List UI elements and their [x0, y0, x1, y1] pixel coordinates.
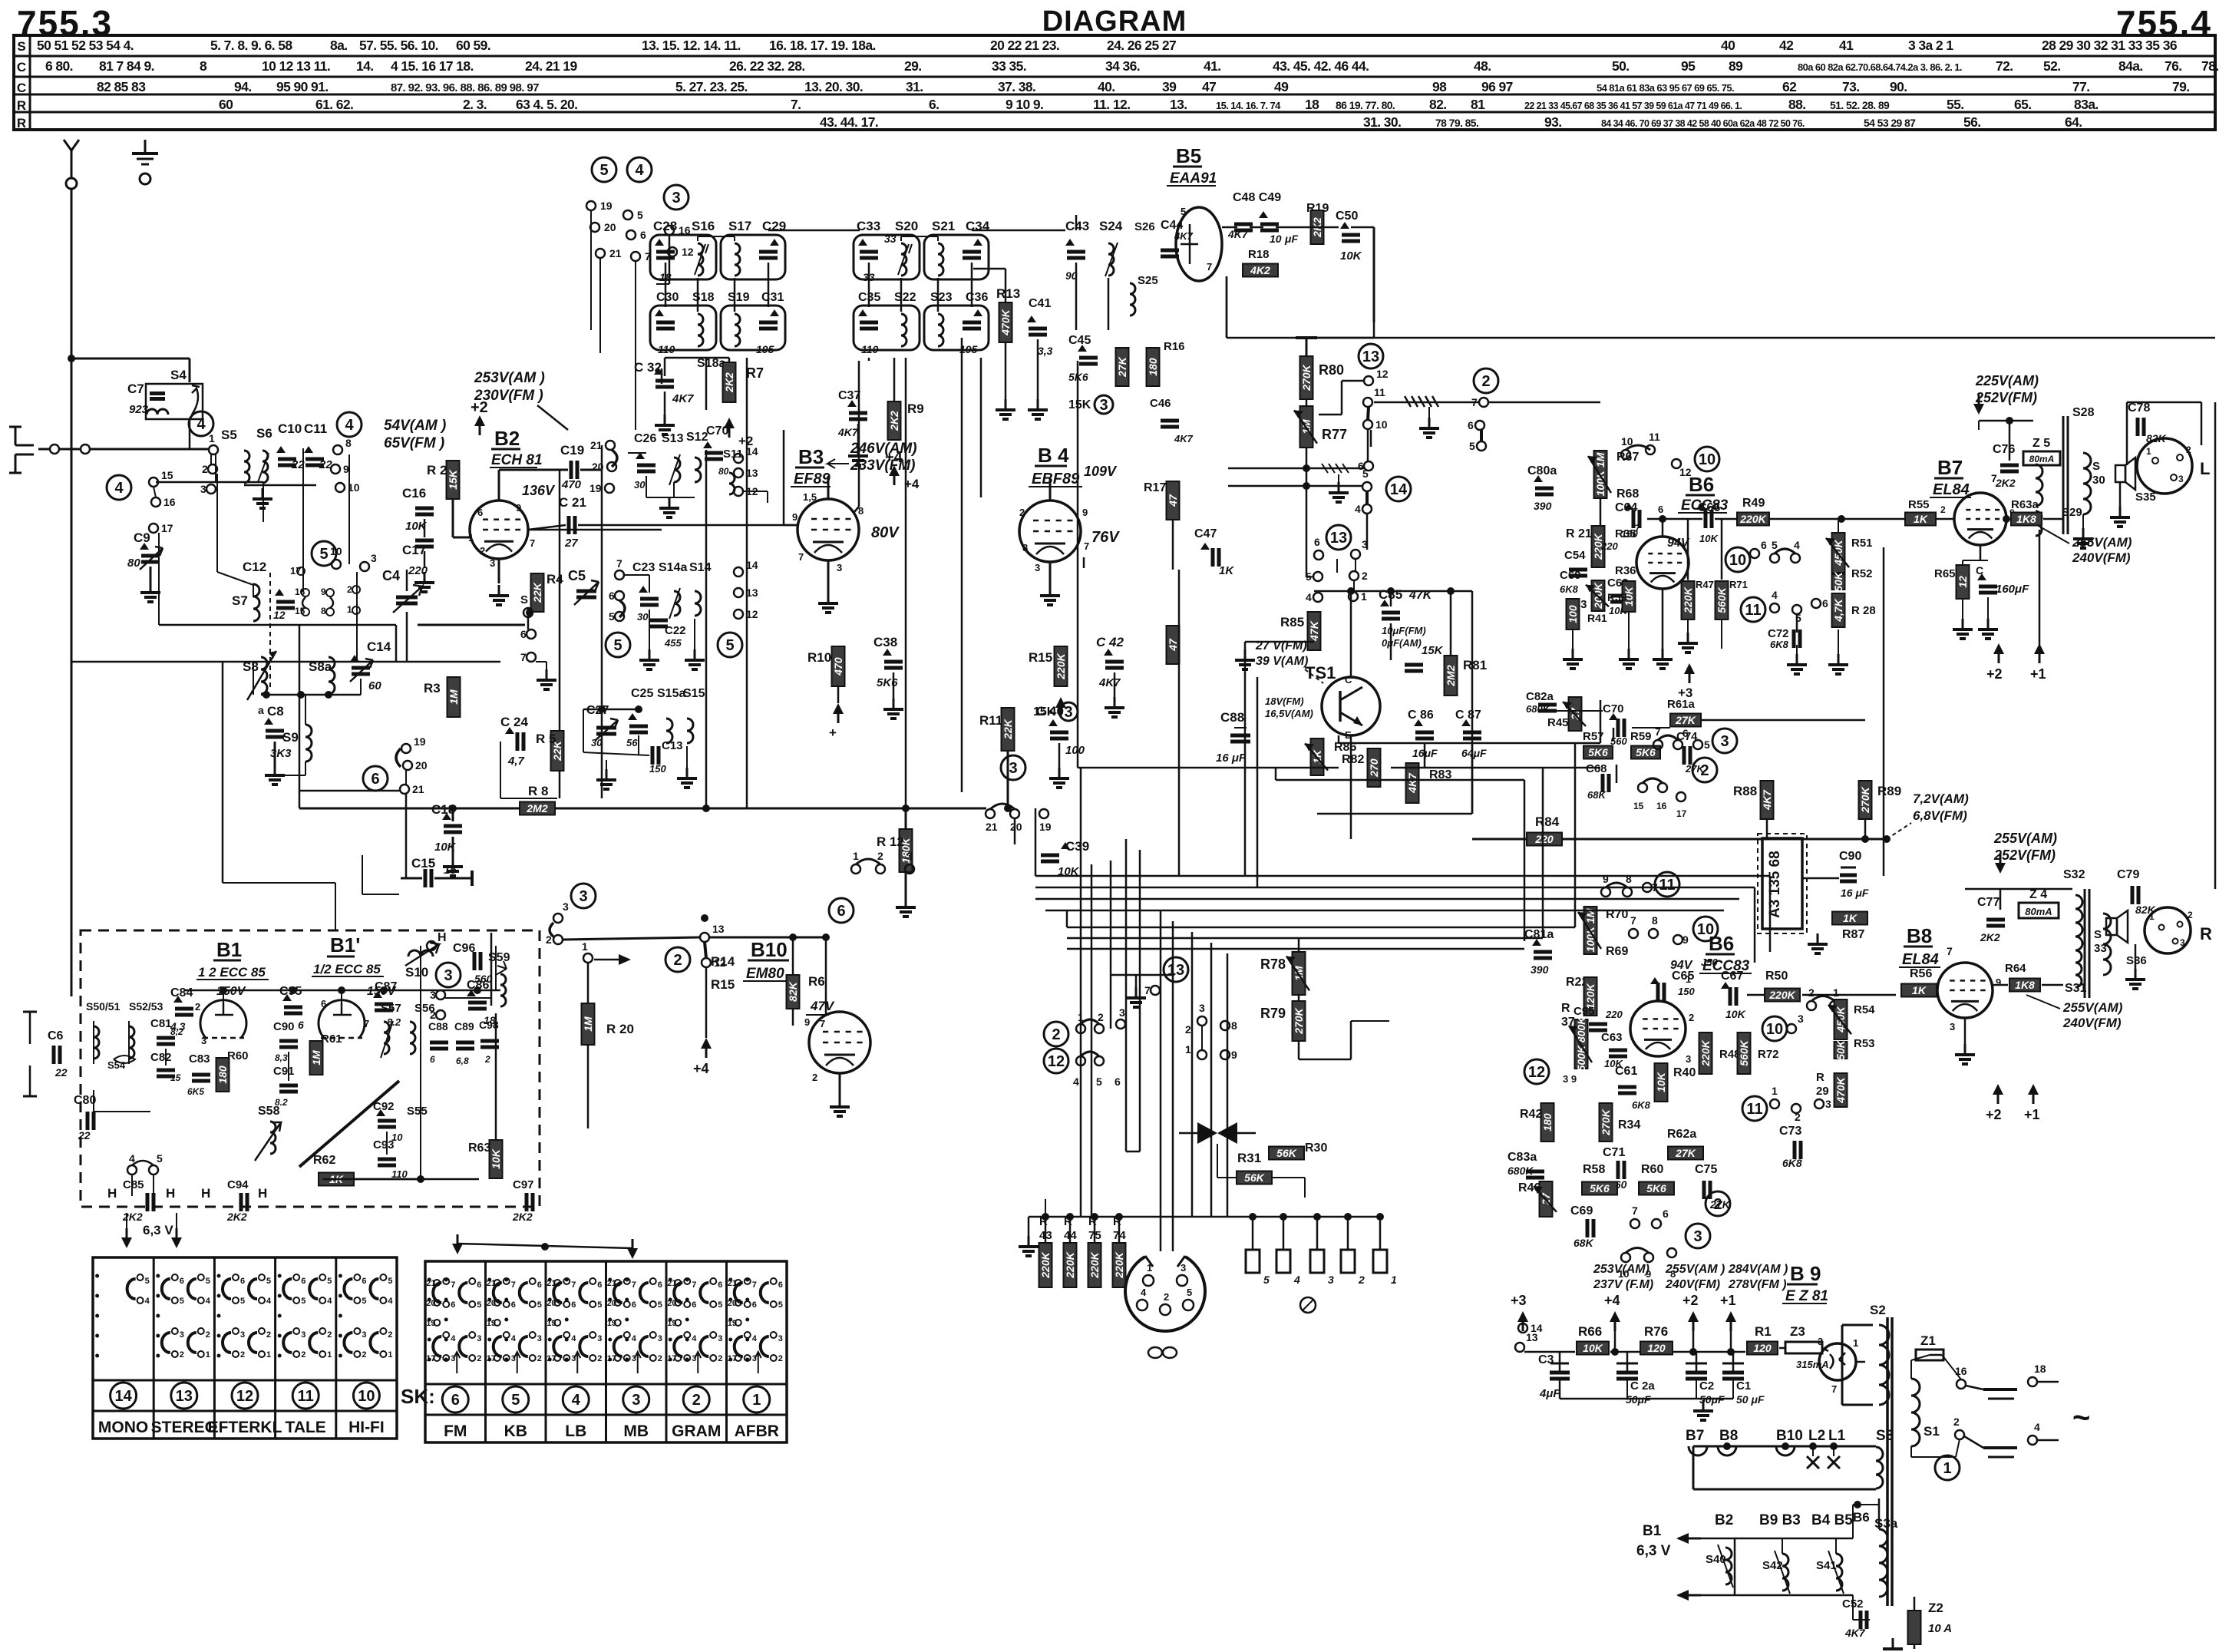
svg-text:15: 15 — [1633, 801, 1644, 811]
svg-text:R71: R71 — [1729, 579, 1748, 590]
svg-text:C94: C94 — [227, 1178, 249, 1191]
svg-text:3: 3 — [658, 1334, 662, 1343]
svg-text:68K: 68K — [1574, 1237, 1594, 1249]
svg-text:Z2: Z2 — [1928, 1601, 1943, 1615]
svg-text:3: 3 — [180, 1330, 184, 1340]
svg-text:S21: S21 — [932, 219, 955, 233]
svg-text:R63: R63 — [468, 1142, 490, 1155]
svg-text:MB: MB — [623, 1422, 649, 1440]
svg-text:6: 6 — [837, 903, 845, 920]
svg-text:270: 270 — [1368, 758, 1380, 778]
svg-text:B6: B6 — [1709, 932, 1734, 955]
svg-text:S14a: S14a — [659, 561, 687, 574]
svg-text:6K5: 6K5 — [187, 1086, 204, 1097]
svg-text:5: 5 — [477, 1300, 481, 1310]
svg-text:R1: R1 — [1755, 1324, 1772, 1339]
svg-text:B8: B8 — [1907, 924, 1932, 947]
svg-text:5: 5 — [1096, 1075, 1102, 1088]
svg-text:C46: C46 — [1150, 397, 1171, 410]
svg-text:4,7: 4,7 — [507, 755, 525, 768]
svg-text:6: 6 — [240, 1277, 245, 1286]
svg-text:C2: C2 — [1699, 1379, 1714, 1393]
svg-text:C23: C23 — [632, 561, 655, 574]
svg-text:R80: R80 — [1319, 362, 1344, 378]
svg-text:5: 5 — [301, 1297, 305, 1306]
svg-text:Z3: Z3 — [1790, 1324, 1805, 1339]
svg-text:15: 15 — [170, 1072, 181, 1083]
svg-text:3: 3 — [240, 1330, 245, 1340]
svg-text:61. 62.: 61. 62. — [315, 97, 353, 112]
svg-text:77.: 77. — [2072, 79, 2090, 94]
svg-text:2. 3.: 2. 3. — [463, 97, 487, 112]
svg-text:19: 19 — [600, 200, 613, 212]
svg-text:60: 60 — [219, 97, 233, 112]
svg-text:7: 7 — [798, 551, 804, 563]
svg-text:24. 26 25 27: 24. 26 25 27 — [1107, 38, 1176, 53]
svg-text:3: 3 — [301, 1330, 305, 1340]
svg-text:S58: S58 — [258, 1105, 280, 1118]
svg-text:78.: 78. — [2201, 58, 2219, 74]
svg-text:10: 10 — [1766, 1021, 1783, 1038]
svg-text:4: 4 — [692, 1334, 697, 1343]
svg-text:C15: C15 — [411, 856, 435, 871]
svg-text:6: 6 — [1761, 539, 1767, 551]
svg-text:S50/51: S50/51 — [86, 1000, 121, 1013]
svg-text:μF: μF — [1284, 233, 1298, 245]
svg-text:33 35.: 33 35. — [992, 58, 1026, 74]
svg-text:5: 5 — [145, 1277, 150, 1286]
svg-text:270K: 270K — [1859, 786, 1871, 813]
svg-text:C84: C84 — [170, 986, 193, 999]
svg-text:57. 55. 56. 10.: 57. 55. 56. 10. — [359, 38, 438, 53]
svg-text:2: 2 — [812, 1072, 817, 1083]
svg-text:7: 7 — [1947, 945, 1953, 957]
svg-text:13: 13 — [1330, 530, 1347, 547]
svg-text:3: 3 — [1181, 1262, 1186, 1274]
svg-text:4: 4 — [2034, 1421, 2040, 1433]
svg-text:1/2 ECC 85: 1/2 ECC 85 — [313, 962, 381, 976]
svg-text:4: 4 — [571, 1334, 576, 1343]
svg-text:255V(AM): 255V(AM) — [2072, 535, 2132, 550]
svg-text:C37: C37 — [838, 389, 860, 402]
svg-text:8: 8 — [1231, 1019, 1237, 1032]
svg-text:1: 1 — [1391, 1274, 1397, 1286]
svg-text:S10: S10 — [405, 965, 428, 980]
svg-text:21: 21 — [609, 247, 622, 259]
svg-text:C39: C39 — [1065, 839, 1089, 854]
svg-text:55.: 55. — [1947, 97, 1964, 112]
svg-text:2: 2 — [1185, 1023, 1191, 1036]
svg-text:10: 10 — [330, 545, 342, 557]
svg-text:6: 6 — [1682, 727, 1689, 739]
svg-text:4K2: 4K2 — [1250, 264, 1270, 276]
svg-text:390: 390 — [1531, 963, 1549, 976]
svg-text:50.: 50. — [1612, 58, 1630, 74]
svg-text:240V(FM): 240V(FM) — [2072, 550, 2131, 565]
svg-text:1: 1 — [853, 850, 859, 862]
svg-text:7: 7 — [1635, 523, 1640, 534]
svg-text:R42: R42 — [1520, 1108, 1542, 1121]
svg-text:6: 6 — [511, 1300, 516, 1310]
svg-text:6: 6 — [597, 1280, 602, 1290]
svg-text:220K: 220K — [1699, 1039, 1712, 1066]
svg-text:9: 9 — [516, 502, 521, 514]
svg-text:43. 44. 17.: 43. 44. 17. — [820, 114, 878, 130]
svg-text:47: 47 — [1167, 494, 1179, 507]
svg-text:240V(FM): 240V(FM) — [1665, 1278, 1720, 1291]
svg-text:C78: C78 — [2128, 401, 2150, 415]
svg-text:195: 195 — [756, 343, 774, 355]
svg-text:9: 9 — [1603, 873, 1609, 885]
svg-text:2: 2 — [1808, 986, 1815, 999]
svg-text:4: 4 — [1073, 1075, 1079, 1088]
svg-text:17: 17 — [1676, 808, 1687, 819]
svg-text:3: 3 — [1119, 1006, 1125, 1019]
svg-text:18V(FM): 18V(FM) — [1265, 695, 1304, 707]
svg-text:S: S — [2094, 928, 2102, 941]
svg-text:S52/53: S52/53 — [129, 1000, 163, 1013]
svg-text:5: 5 — [637, 209, 643, 221]
svg-text:220K: 220K — [1039, 1251, 1052, 1278]
svg-text:6: 6 — [609, 590, 615, 602]
svg-text:7: 7 — [571, 1280, 576, 1290]
svg-text:S22: S22 — [894, 291, 916, 304]
svg-text:S: S — [520, 593, 528, 606]
svg-text:6: 6 — [362, 1277, 366, 1286]
svg-text:470K: 470K — [999, 309, 1012, 335]
svg-text:12: 12 — [714, 957, 726, 969]
svg-text:7: 7 — [1144, 984, 1151, 996]
svg-text:6 80.: 6 80. — [45, 58, 73, 74]
svg-text:1M: 1M — [582, 1016, 594, 1032]
svg-text:1: 1 — [388, 1350, 392, 1360]
svg-text:+2: +2 — [1986, 1107, 2002, 1122]
svg-text:4μF: 4μF — [1539, 1387, 1560, 1400]
svg-text:C 86: C 86 — [1408, 709, 1434, 722]
svg-text:54 53 29 87: 54 53 29 87 — [1864, 117, 1916, 129]
svg-text:3: 3 — [632, 1392, 640, 1409]
svg-text:C67: C67 — [1721, 970, 1743, 983]
svg-text:H: H — [438, 931, 447, 944]
svg-text:TS1: TS1 — [1305, 663, 1336, 682]
svg-text:H: H — [201, 1186, 210, 1201]
svg-text:30: 30 — [591, 737, 603, 748]
svg-text:40: 40 — [1721, 38, 1735, 53]
svg-text:13: 13 — [712, 923, 725, 935]
svg-text:5. 27. 23. 25.: 5. 27. 23. 25. — [675, 79, 748, 94]
svg-text:FM: FM — [444, 1422, 467, 1440]
svg-text:13: 13 — [1362, 349, 1379, 365]
svg-text:C10: C10 — [278, 421, 302, 436]
svg-text:31.: 31. — [906, 79, 923, 94]
svg-text:11: 11 — [1374, 386, 1385, 398]
svg-text:47: 47 — [1202, 79, 1216, 94]
svg-text:4: 4 — [196, 416, 206, 433]
svg-text:6: 6 — [658, 1280, 662, 1290]
svg-text:7: 7 — [451, 1280, 455, 1290]
svg-text:S6: S6 — [256, 426, 272, 441]
svg-text:B8: B8 — [1719, 1428, 1738, 1444]
svg-text:270K: 270K — [1293, 1007, 1305, 1034]
svg-text:120: 120 — [1647, 1342, 1666, 1354]
svg-text:7: 7 — [520, 651, 527, 663]
svg-text:6: 6 — [1314, 536, 1320, 548]
svg-text:C60: C60 — [1560, 569, 1581, 582]
svg-text:R62: R62 — [313, 1154, 335, 1167]
svg-text:20: 20 — [604, 221, 616, 233]
svg-text:S59: S59 — [488, 951, 510, 964]
svg-text:8a.: 8a. — [330, 38, 348, 53]
svg-text:R 5: R 5 — [536, 732, 556, 746]
svg-text:1: 1 — [1147, 1262, 1152, 1274]
svg-text:12: 12 — [273, 609, 286, 621]
svg-text:C 2a: C 2a — [1630, 1379, 1655, 1393]
svg-text:R61: R61 — [321, 1032, 342, 1046]
svg-text:13: 13 — [176, 1388, 193, 1405]
svg-text:R77: R77 — [1322, 427, 1347, 442]
svg-text:6: 6 — [632, 1300, 636, 1310]
svg-text:1: 1 — [1361, 590, 1367, 603]
svg-text:30: 30 — [634, 479, 646, 491]
svg-text:C93: C93 — [373, 1138, 395, 1151]
svg-text:5: 5 — [1181, 206, 1186, 217]
svg-text:150: 150 — [1678, 986, 1695, 997]
svg-text:Z 5: Z 5 — [2033, 437, 2050, 450]
svg-text:93.: 93. — [1544, 114, 1562, 130]
svg-text:60 59.: 60 59. — [456, 38, 490, 53]
svg-text:54V(AM ): 54V(AM ) — [384, 418, 446, 434]
svg-text:R60: R60 — [1641, 1163, 1663, 1176]
svg-text:5: 5 — [157, 1152, 163, 1165]
svg-text:252V(FM): 252V(FM) — [1975, 390, 2037, 405]
svg-text:S19: S19 — [728, 291, 750, 304]
svg-text:C13: C13 — [662, 739, 683, 752]
svg-text:41: 41 — [1839, 38, 1854, 53]
svg-text:C48 C49: C48 C49 — [1233, 191, 1281, 204]
svg-text:11: 11 — [1659, 877, 1675, 894]
svg-text:R58: R58 — [1583, 1163, 1605, 1176]
svg-text:76.: 76. — [2165, 58, 2182, 74]
svg-text:3: 3 — [579, 888, 587, 905]
svg-text:56.: 56. — [1963, 114, 1981, 130]
svg-text:7: 7 — [1084, 540, 1089, 552]
svg-text:C83a: C83a — [1507, 1151, 1537, 1164]
svg-text:5: 5 — [511, 1392, 520, 1409]
svg-text:16: 16 — [679, 224, 691, 236]
svg-text:4K7: 4K7 — [1098, 676, 1121, 689]
svg-text:48.: 48. — [1474, 58, 1491, 74]
svg-text:R47: R47 — [1696, 579, 1714, 590]
svg-text:C89: C89 — [454, 1020, 474, 1032]
svg-text:C63: C63 — [1601, 1031, 1623, 1044]
svg-text:C92: C92 — [373, 1100, 395, 1113]
svg-text:4: 4 — [451, 1334, 456, 1343]
svg-text:C30: C30 — [656, 291, 679, 304]
svg-text:C79: C79 — [2117, 868, 2139, 881]
svg-text:10: 10 — [1270, 233, 1282, 245]
svg-text:C6: C6 — [48, 1029, 64, 1042]
svg-text:96 97: 96 97 — [1481, 79, 1513, 94]
svg-text:7: 7 — [632, 1280, 636, 1290]
svg-text:87. 92. 93. 96. 88. 86. 89 98: 87. 92. 93. 96. 88. 86. 89 98. 97 — [391, 81, 539, 94]
svg-text:253V(AM ): 253V(AM ) — [474, 370, 545, 386]
svg-text:+3: +3 — [1511, 1293, 1527, 1308]
svg-text:S56: S56 — [414, 1002, 435, 1015]
svg-text:R16: R16 — [1164, 340, 1185, 353]
svg-text:84 34 46. 70 69 37 38 42 58 40: 84 34 46. 70 69 37 38 42 58 40 60a 62a 4… — [1601, 118, 1805, 129]
svg-text:16. 18. 17. 19. 18a.: 16. 18. 17. 19. 18a. — [769, 38, 876, 53]
svg-text:R78: R78 — [1260, 957, 1286, 972]
svg-text:4K7: 4K7 — [837, 426, 859, 438]
svg-text:S23: S23 — [930, 291, 953, 304]
svg-text:2: 2 — [692, 1392, 701, 1409]
svg-text:12: 12 — [1048, 1053, 1065, 1070]
svg-text:2K2: 2K2 — [512, 1211, 533, 1223]
svg-text:2: 2 — [480, 545, 485, 557]
svg-text:4: 4 — [1306, 591, 1312, 603]
svg-text:80mA: 80mA — [2025, 906, 2052, 917]
svg-text:2: 2 — [877, 850, 883, 862]
svg-text:3: 3 — [1009, 760, 1017, 777]
svg-text:3: 3 — [597, 1334, 602, 1343]
svg-text:R17: R17 — [1144, 481, 1166, 494]
svg-text:2: 2 — [327, 1330, 332, 1340]
svg-text:C61: C61 — [1615, 1065, 1637, 1078]
svg-text:+1: +1 — [2030, 666, 2046, 682]
svg-text:R36: R36 — [1615, 564, 1636, 577]
svg-text:1: 1 — [1686, 973, 1691, 985]
svg-text:R55: R55 — [1908, 498, 1930, 511]
svg-text:12: 12 — [236, 1388, 253, 1405]
svg-text:10K: 10K — [1725, 1008, 1746, 1020]
svg-text:10K: 10K — [490, 1148, 502, 1169]
svg-text:3: 3 — [2180, 937, 2185, 948]
svg-text:15K: 15K — [1422, 644, 1444, 657]
svg-text:R65: R65 — [1934, 567, 1956, 580]
svg-text:4: 4 — [572, 1392, 581, 1409]
svg-text:HI-FI: HI-FI — [348, 1419, 385, 1436]
svg-text:3: 3 — [1099, 397, 1108, 414]
svg-text:1: 1 — [1853, 1337, 1858, 1349]
svg-text:51. 52. 28. 89: 51. 52. 28. 89 — [1830, 99, 1890, 111]
svg-text:7.: 7. — [791, 97, 801, 112]
svg-text:R30: R30 — [1305, 1142, 1327, 1155]
svg-text:7: 7 — [511, 1280, 516, 1290]
svg-text:R34: R34 — [1618, 1118, 1640, 1132]
svg-text:C97: C97 — [513, 1178, 534, 1191]
svg-text:1: 1 — [266, 1350, 271, 1360]
svg-text:B6: B6 — [1853, 1510, 1870, 1525]
svg-text:3: 3 — [362, 1330, 366, 1340]
svg-text:8: 8 — [345, 437, 352, 449]
svg-text:109V: 109V — [1084, 464, 1118, 479]
svg-text:5: 5 — [1187, 1287, 1192, 1298]
svg-text:1: 1 — [206, 1350, 210, 1360]
svg-text:EL84: EL84 — [1902, 951, 1939, 968]
svg-text:315mA: 315mA — [1796, 1359, 1829, 1370]
svg-text:64μF: 64μF — [1461, 747, 1487, 759]
svg-text:2: 2 — [1795, 1111, 1801, 1123]
svg-text:B 4: B 4 — [1038, 444, 1069, 467]
svg-text:10μF(FM): 10μF(FM) — [1382, 625, 1426, 636]
svg-text:R41: R41 — [1587, 612, 1607, 624]
svg-text:65.: 65. — [2014, 97, 2032, 112]
svg-text:240V(FM): 240V(FM) — [2062, 1016, 2122, 1030]
svg-text:29.: 29. — [904, 58, 922, 74]
svg-text:220: 220 — [1600, 540, 1618, 552]
svg-text:7: 7 — [820, 1018, 825, 1029]
svg-text:5: 5 — [725, 637, 734, 654]
svg-text:6,3 V: 6,3 V — [1636, 1543, 1671, 1559]
svg-text:R49: R49 — [1742, 497, 1765, 510]
svg-text:15: 15 — [161, 469, 173, 481]
svg-text:R82: R82 — [1342, 753, 1364, 766]
svg-text:2: 2 — [658, 1354, 662, 1363]
svg-text:6K8: 6K8 — [1782, 1157, 1802, 1169]
svg-text:1M: 1M — [447, 689, 460, 705]
svg-text:4K7: 4K7 — [672, 392, 694, 405]
svg-text:49: 49 — [1274, 79, 1289, 94]
svg-text:2: 2 — [266, 1330, 271, 1340]
svg-text:S3: S3 — [1876, 1428, 1894, 1444]
svg-text:81 7 84 9.: 81 7 84 9. — [99, 58, 154, 74]
svg-text:S26: S26 — [1134, 220, 1155, 233]
svg-text:19: 19 — [414, 735, 426, 748]
svg-text:10K: 10K — [1699, 533, 1719, 544]
svg-text:27K: 27K — [1116, 356, 1128, 378]
svg-text:30: 30 — [637, 611, 649, 623]
svg-text:110: 110 — [861, 343, 879, 355]
svg-text:R50: R50 — [1765, 970, 1788, 983]
svg-text:7: 7 — [1630, 914, 1636, 927]
svg-text:12: 12 — [1957, 576, 1969, 588]
svg-text:S14: S14 — [689, 561, 712, 574]
svg-text:100: 100 — [1065, 744, 1085, 757]
svg-text:R18: R18 — [1248, 248, 1270, 261]
svg-text:B9 B3: B9 B3 — [1759, 1512, 1801, 1528]
svg-text:C96: C96 — [453, 942, 475, 955]
svg-text:2: 2 — [1689, 1012, 1694, 1023]
svg-text:31. 30.: 31. 30. — [1363, 114, 1401, 130]
svg-text:+1: +1 — [2024, 1107, 2040, 1122]
svg-text:S25: S25 — [1138, 274, 1158, 287]
svg-text:9: 9 — [1231, 1049, 1237, 1061]
svg-text:7: 7 — [364, 1018, 369, 1029]
svg-text:C19: C19 — [560, 443, 584, 458]
svg-text:4K7: 4K7 — [1844, 1627, 1866, 1639]
svg-text:C90: C90 — [1839, 850, 1861, 863]
svg-text:89: 89 — [1729, 58, 1743, 74]
svg-text:+1: +1 — [1720, 1293, 1736, 1308]
svg-text:H: H — [107, 1186, 117, 1201]
svg-text:72.: 72. — [1996, 58, 2013, 74]
svg-text:R: R — [17, 116, 26, 131]
svg-text:C82: C82 — [150, 1051, 172, 1064]
svg-text:5: 5 — [658, 1300, 662, 1310]
svg-text:9: 9 — [792, 511, 797, 523]
svg-text:3K3: 3K3 — [270, 747, 292, 760]
svg-text:1K: 1K — [1219, 564, 1234, 577]
svg-text:4K7: 4K7 — [1406, 772, 1418, 794]
svg-text:6: 6 — [537, 1280, 542, 1290]
svg-text:5K6: 5K6 — [1636, 746, 1656, 758]
svg-text:220K: 220K — [1064, 1251, 1076, 1278]
svg-text:100: 100 — [1567, 605, 1579, 623]
svg-text:EAA91: EAA91 — [1170, 170, 1217, 187]
svg-text:3: 3 — [537, 1334, 542, 1343]
svg-text:13: 13 — [1167, 962, 1184, 979]
svg-text:C71: C71 — [1603, 1146, 1625, 1159]
